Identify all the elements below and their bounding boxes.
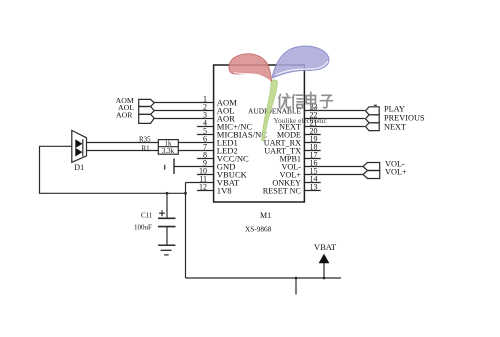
pin 5 stub — [197, 134, 214, 136]
svg-text:12: 12 — [199, 183, 207, 192]
red petal — [229, 54, 272, 81]
pin 11 wire — [186, 182, 214, 184]
ground — [158, 244, 175, 246]
信 — [293, 95, 304, 108]
pin 1 wire — [154, 102, 214, 104]
pin 21 wire — [304, 126, 364, 128]
pin 6 wire — [178, 142, 213, 144]
pin 18 stub — [304, 150, 320, 152]
pin 17 stub — [304, 158, 320, 160]
svg-text:100uF: 100uF — [134, 223, 152, 231]
svg-text:13: 13 — [310, 183, 318, 192]
pin 14 stub — [304, 182, 320, 184]
connector J2 PLAY/PREVIOUS/NEXT — [366, 107, 380, 115]
svg-text:R1: R1 — [142, 144, 151, 152]
IC M1 XS-9868 body — [214, 65, 305, 202]
svg-text:Youlike electronic: Youlike electronic — [274, 116, 328, 125]
C11 plus sign — [159, 210, 165, 216]
node VBAT arrow junction — [323, 277, 326, 280]
svg-text:PREVIOUS: PREVIOUS — [384, 113, 425, 122]
IC right pin labels — [248, 107, 302, 196]
green stem — [262, 80, 278, 141]
svg-text:PLAY: PLAY — [384, 104, 405, 113]
watermark chinese text 优信电子 — [279, 92, 333, 108]
pin 2 wire — [154, 110, 214, 112]
wire VBAT pin11 down — [185, 183, 187, 279]
svg-text:NEXT: NEXT — [384, 122, 406, 131]
pin 7 wire — [178, 150, 213, 152]
pin 22 wire — [304, 118, 364, 120]
svg-text:AOR: AOR — [116, 110, 133, 119]
connector J1 AOM/AOL/AOR — [139, 99, 155, 106]
pin 15 wire — [304, 174, 363, 176]
svg-text:R35: R35 — [139, 135, 151, 143]
pin 12 stub — [197, 190, 214, 192]
pin 8 stub — [197, 158, 214, 160]
resistor R1 — [158, 146, 178, 148]
blue petal highlight — [276, 61, 328, 75]
IC left pin labels — [217, 98, 267, 196]
pin 4 stub — [197, 126, 214, 128]
子 — [320, 95, 332, 107]
svg-text:XS-9868: XS-9868 — [245, 225, 272, 234]
node C11 junction — [166, 192, 169, 195]
svg-text:C11: C11 — [141, 211, 153, 219]
node bottom stub junction — [295, 277, 298, 280]
pin 16 wire — [304, 166, 363, 168]
wire stub down — [295, 278, 297, 295]
svg-text:M1: M1 — [260, 211, 271, 220]
pin 3 wire — [154, 118, 214, 120]
svg-text:RESET NC: RESET NC — [263, 187, 302, 196]
battery B1 at pin 9 — [173, 159, 175, 175]
pin numbers left — [199, 95, 207, 192]
capacitor C11 — [166, 193, 168, 218]
pin 13 stub — [304, 190, 320, 192]
pin 9 wire — [174, 166, 214, 168]
power VBAT arrow — [323, 262, 325, 278]
LED D1 chips — [75, 139, 82, 148]
pin 23 wire — [304, 110, 364, 112]
connector J2 pin1 tick — [374, 104, 377, 106]
connector J3 VOL-/VOL+ — [363, 163, 380, 171]
pin 20 stub — [304, 134, 320, 136]
blue petal — [272, 46, 329, 78]
wire D1 left to VBAT rail — [40, 146, 186, 193]
watermark flower — [229, 46, 329, 141]
wire D1 to R1 — [87, 150, 159, 152]
connector labels right — [384, 104, 425, 176]
电 — [306, 92, 317, 108]
pin 10 stub — [197, 174, 214, 176]
node VBAT rail junction — [184, 192, 187, 195]
connector labels left — [116, 96, 135, 119]
优 — [279, 94, 291, 108]
svg-text:1V8: 1V8 — [217, 186, 232, 196]
wire D1 to R35 — [87, 142, 159, 144]
red petal highlight — [234, 73, 270, 81]
svg-text:3.3k: 3.3k — [162, 147, 175, 155]
resistor R35 — [158, 140, 178, 155]
svg-text:D1: D1 — [74, 163, 84, 172]
pin numbers right — [310, 103, 318, 192]
LED D1 package — [72, 130, 87, 162]
wire bottom rail — [186, 277, 342, 279]
svg-text:VOL+: VOL+ — [385, 168, 407, 177]
pin 19 stub — [304, 142, 320, 144]
svg-text:VBAT: VBAT — [314, 242, 337, 252]
